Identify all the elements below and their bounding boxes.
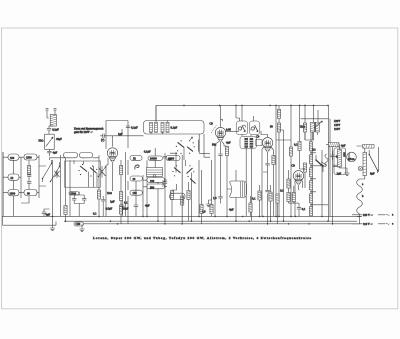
capacitor C24: [265, 190, 269, 191]
transformer T3 AF coupling: [230, 181, 247, 198]
node dots bottom buses: [98, 216, 200, 225]
switch S3b lower bar: [187, 168, 193, 174]
resistor R31: [119, 205, 122, 214]
terminal P1 mains 220V: [352, 214, 385, 216]
svg-text:1µF: 1µF: [110, 200, 115, 203]
svg-text:1500: 1500: [10, 192, 16, 195]
coil L14 box: [147, 178, 165, 183]
svg-text:C9: C9: [292, 165, 296, 168]
svg-text:150: 150: [133, 192, 138, 195]
svg-text:2kΩ: 2kΩ: [300, 126, 305, 129]
coil L4 box: [64, 153, 78, 158]
switch S4 tone: [316, 160, 323, 167]
wire mid links: [49, 157, 99, 159]
capacitor C12: [120, 200, 124, 216]
wire screen second vertical: [124, 152, 126, 216]
capacitor C5 4uF: [42, 209, 50, 216]
svg-text:0,1: 0,1: [252, 197, 256, 200]
wire left edge vertical: [2, 152, 4, 216]
ground G4: [79, 229, 84, 232]
svg-text:50μ: 50μ: [212, 144, 217, 147]
wire S3 feeds: [172, 160, 189, 224]
resistor R6: [97, 190, 100, 199]
resistor R10: [187, 191, 190, 200]
switch S5 speaker: [369, 155, 377, 171]
wire left lower return: [3, 216, 57, 225]
coil L27 box small: [69, 192, 79, 195]
resistor R22: [258, 191, 261, 200]
coil L15 box: [147, 184, 165, 189]
svg-text:4µF: 4µF: [168, 158, 173, 161]
resistor R8: [210, 205, 213, 214]
coil L17 loops: [251, 125, 258, 132]
ground G3: [344, 173, 349, 176]
svg-text:1500: 1500: [26, 157, 32, 160]
wire x60 drop: [59, 155, 61, 216]
coil L23 box: [130, 156, 142, 161]
coil L26 filter choke: [329, 143, 340, 147]
capacitor C3 trimmer: [27, 173, 31, 180]
capacitor C4 trimmer: [27, 179, 31, 190]
resistor R12 on bus: [277, 109, 280, 118]
wire top anode supply bus: [156, 104, 329, 106]
coil L25 box: [166, 156, 180, 161]
horizontal links right-mid: [263, 130, 314, 190]
switch block K1 outline: [65, 161, 101, 187]
capacitor C25: [333, 165, 337, 166]
antenna A: [45, 108, 56, 115]
wire bottom AVC bus: [74, 223, 360, 225]
wire V2 left diagonal: [211, 125, 216, 133]
svg-text:110 V ∼: 110 V ∼: [363, 223, 373, 226]
coil L6 box: [8, 174, 19, 180]
coil L22 box hum filter: [74, 222, 84, 226]
capacitor C21: [72, 195, 76, 204]
wire V4 pins: [295, 181, 303, 217]
switch S2b osc wave bar: [187, 147, 193, 152]
coil L20 field: [338, 150, 342, 168]
coil L28 box: [170, 193, 186, 199]
switch K1b bar: [90, 168, 97, 174]
resistor R5: [119, 166, 122, 175]
coil L2 box 150: [8, 154, 19, 160]
svg-text:4µF: 4µF: [226, 142, 231, 145]
wire divider taps: [311, 153, 328, 205]
svg-text:0,1: 0,1: [294, 143, 298, 146]
IF can T2 outline: [240, 136, 256, 149]
capacitor C20: [330, 151, 334, 160]
capacitor C19 block: [147, 168, 163, 178]
switch S1b wave change: [51, 162, 60, 182]
svg-text:0,1: 0,1: [124, 201, 128, 204]
wire T1 leads: [236, 105, 253, 136]
SEC-Dend: [97, 129, 213, 225]
wire antenna to C1: [47, 115, 53, 128]
wire mid verticals: [99, 129, 143, 224]
svg-text:6µF: 6µF: [370, 173, 375, 176]
svg-text:4µF: 4µF: [341, 144, 346, 147]
capacitor C6 grid: [100, 134, 104, 138]
wire top bus drop left: [155, 105, 157, 121]
svg-text:4µF: 4µF: [229, 208, 234, 211]
wire screen bus y118.8: [301, 105, 331, 221]
svg-text:geht für 220V ∼: geht für 220V ∼: [74, 131, 93, 134]
coil L16 loops: [238, 125, 245, 132]
coil L21 output primary: [363, 145, 375, 149]
resistor R15: [298, 142, 301, 151]
capacitor C11: [101, 196, 105, 216]
resistor R34: [181, 196, 184, 205]
wire T2 leads: [246, 148, 251, 222]
svg-text:b: b: [362, 195, 364, 198]
svg-text:0,5µF: 0,5µF: [106, 208, 113, 211]
wire x318-330 verticals: [312, 110, 332, 224]
resistor R3 cathode: [64, 206, 67, 215]
coil L7 box: [8, 190, 19, 196]
wire V1 pins down: [106, 158, 113, 217]
coil L3 box 1500: [24, 154, 37, 160]
heater bottom tee: [357, 216, 362, 218]
speaker LS1: [347, 152, 357, 162]
capacitor C16: [265, 162, 269, 170]
wire V2 pins: [215, 141, 227, 216]
resistor R26 output: [363, 153, 367, 176]
jack J1: [358, 167, 362, 171]
resistor R28: [292, 193, 295, 202]
svg-text:15cm: 15cm: [348, 158, 355, 161]
bandfilter box U1 outline: [144, 121, 205, 135]
transformer T4 mains dropper: [310, 121, 322, 132]
resistor R20: [287, 179, 290, 188]
resistor R14: [289, 147, 292, 156]
switch S2a osc wave bar: [178, 142, 184, 147]
node dots top bus: [183, 105, 185, 107]
capacitor C1 0,1uF: [47, 129, 51, 135]
resistor R11: [225, 147, 228, 156]
svg-text:C9: C9: [256, 136, 260, 139]
svg-text:4µF: 4µF: [46, 214, 51, 217]
svg-text:e: e: [392, 223, 394, 226]
svg-text:50Ω: 50Ω: [39, 140, 44, 143]
tube V3 demodulator: [262, 138, 272, 152]
capacitor C23: [163, 179, 167, 187]
resistor R16: [303, 123, 306, 132]
coil L18 dark: [244, 138, 248, 148]
coil L10a: [161, 122, 164, 132]
coil L9a: [150, 122, 153, 132]
resistor R2 padder: [28, 161, 30, 166]
svg-text:1Ω: 1Ω: [280, 189, 284, 192]
wire vertical x276: [275, 105, 277, 216]
svg-text:0,1µF: 0,1µF: [52, 129, 59, 132]
svg-text:2Ω: 2Ω: [312, 148, 316, 151]
svg-text:Lorenz, Super 200 GW, und Tuba: Lorenz, Super 200 GW, und Tubag, Tefadyn…: [93, 236, 311, 241]
core block: [343, 152, 345, 157]
wire divider joins: [310, 132, 312, 216]
switch S3c lower bar: [190, 179, 196, 184]
resistor R19: [303, 163, 306, 172]
wire V2 anode right: [226, 130, 239, 132]
svg-text:4µF: 4µF: [53, 151, 58, 154]
wire T3 leads: [227, 170, 236, 221]
svg-text:0,1: 0,1: [93, 212, 97, 215]
ground G2: [206, 204, 211, 207]
wire vertical x283.5: [283, 130, 285, 221]
resistor R4: [119, 192, 122, 201]
coil L12 box: [130, 176, 142, 181]
wire V3 pins: [262, 147, 274, 216]
wire coil bank bottom returns: [14, 160, 75, 216]
svg-text:0,1µF: 0,1µF: [171, 127, 178, 130]
capacitor C14: [218, 152, 222, 160]
node X contact star: [55, 170, 60, 178]
svg-text:4µF: 4µF: [145, 204, 150, 207]
capacitor C2 4uF: [47, 149, 51, 156]
capacitor C22: [82, 195, 86, 204]
heater zigzag RH2: [325, 154, 328, 166]
divider chain R38: [309, 181, 312, 190]
wire V1 grid top to osc: [105, 136, 144, 147]
svg-text:C50: C50: [76, 223, 81, 226]
capacitor C10 trimmer: [163, 153, 167, 161]
svg-text:220 V ∼: 220 V ∼: [363, 214, 374, 217]
svg-text:50: 50: [270, 125, 273, 128]
resistor R17: [312, 123, 315, 132]
IF can T1b outline: [249, 121, 259, 135]
coil L9b: [155, 122, 158, 132]
capacitor C15: [218, 193, 222, 204]
resistor R23: [269, 192, 272, 201]
svg-text:0,1µF: 0,1µF: [131, 126, 138, 129]
capacitor C7 0,1uF: [126, 126, 130, 127]
svg-text:10000: 10000: [150, 157, 158, 160]
coil L19 dark: [250, 138, 254, 148]
SEC-Eend: [206, 105, 239, 216]
svg-text:125V: 125V: [334, 124, 340, 127]
coil L1 antenna: [50, 115, 56, 127]
wire V2 anode path: [220, 160, 222, 193]
switch S1a wave change: [43, 160, 52, 182]
svg-text:1,5: 1,5: [213, 197, 217, 200]
wire caps row join: [74, 192, 84, 217]
switch S6 band X: [99, 166, 106, 178]
speaker box outline: [334, 148, 346, 175]
wire K1 drops: [84, 161, 98, 187]
switch K1a bar: [80, 166, 87, 172]
wire L14 L15 joins: [143, 180, 167, 187]
divider chain R36: [309, 155, 312, 164]
terminal P2 mains 110V: [352, 223, 385, 225]
wire can verticals to bottom: [147, 148, 199, 224]
svg-text:C9: C9: [210, 123, 214, 126]
divider chain R37: [309, 168, 312, 177]
resistor R24: [249, 203, 252, 212]
wire bus gap jumper: [66, 221, 87, 224]
ground G1: [52, 217, 54, 228]
svg-text:100: 100: [150, 180, 155, 183]
heater zigzag RH: [357, 179, 363, 216]
coil L24 hook: [135, 165, 139, 170]
wire left ladder verticals: [3, 152, 66, 217]
SEC-Gend: [227, 105, 333, 223]
capacitor C17: [320, 162, 327, 167]
wire speaker frame: [326, 145, 379, 172]
resistor R7: [200, 205, 203, 214]
wire V1 screen feed: [106, 121, 128, 150]
switch S3a lower bar: [174, 168, 181, 173]
svg-text:0,1: 0,1: [302, 208, 306, 211]
tube V2 IF amp: [215, 127, 225, 141]
svg-text:220V: 220V: [334, 120, 340, 123]
resistor R9: [170, 191, 173, 200]
wire antenna feed to coil bank: [48, 158, 50, 160]
divider chain R40: [309, 207, 312, 216]
trimmer arrow: [190, 137, 193, 140]
wire row1 box drops: [69, 160, 71, 216]
svg-text:1µF: 1µF: [337, 172, 342, 175]
svg-text:1kΩ: 1kΩ: [107, 192, 112, 195]
IF can T1a outline: [236, 121, 248, 135]
tube V4 output: [293, 171, 303, 185]
wire V3 grid: [261, 131, 268, 137]
svg-text:a: a: [392, 214, 394, 217]
tube V1 mixer: [107, 148, 117, 162]
svg-text:40pF: 40pF: [56, 138, 62, 141]
wire V3 out: [267, 170, 269, 224]
SEC-Hend: [300, 120, 394, 226]
wire osc right side: [199, 134, 210, 157]
svg-text:a: a: [362, 183, 364, 186]
coil L8 box: [24, 190, 37, 196]
capacitor C18: [297, 203, 301, 216]
coil L13 box: [130, 190, 142, 195]
coil L10b: [166, 122, 169, 132]
wire bottom earth bus: [2, 215, 360, 217]
wire box leads: [151, 105, 168, 134]
coil L9 osc box: [148, 156, 163, 160]
divider chain R39: [309, 194, 312, 203]
SEC-Bend: [98, 121, 144, 224]
divider chain R35: [309, 142, 312, 151]
wire V2 grid top: [221, 105, 223, 127]
wire heater taps: [360, 179, 365, 224]
svg-text:0,05: 0,05: [226, 129, 231, 132]
node dots right buses: [52, 216, 334, 225]
capacitor C13: [134, 190, 138, 216]
wire switch frame: [170, 140, 199, 154]
resistor R27: [287, 193, 290, 202]
wire bottom heater bus: [64, 220, 357, 222]
resistor R25: [276, 194, 279, 203]
resistor R33: [272, 156, 275, 165]
SEC-Cend: [144, 105, 211, 223]
svg-text:150: 150: [10, 157, 15, 160]
svg-text:500: 500: [150, 187, 155, 190]
wire join resistor bottoms: [289, 202, 300, 204]
svg-text:110V: 110V: [334, 128, 340, 131]
SEC-Jend: [183, 105, 329, 107]
coupling box U2: [256, 140, 262, 146]
SEC-Iend: [52, 125, 334, 231]
svg-text:0,1µF: 0,1µF: [144, 151, 151, 154]
wire ladder rungs: [3, 157, 46, 193]
coil L5 box: [80, 153, 93, 158]
resistor R1 mains dropper with arrow: [45, 134, 55, 149]
SEC-Fend: [236, 105, 275, 223]
svg-text:0,5: 0,5: [202, 210, 206, 213]
svg-text:(7): (7): [101, 139, 104, 142]
wire V1 base stem: [112, 162, 114, 167]
resistor R13: [277, 123, 280, 132]
